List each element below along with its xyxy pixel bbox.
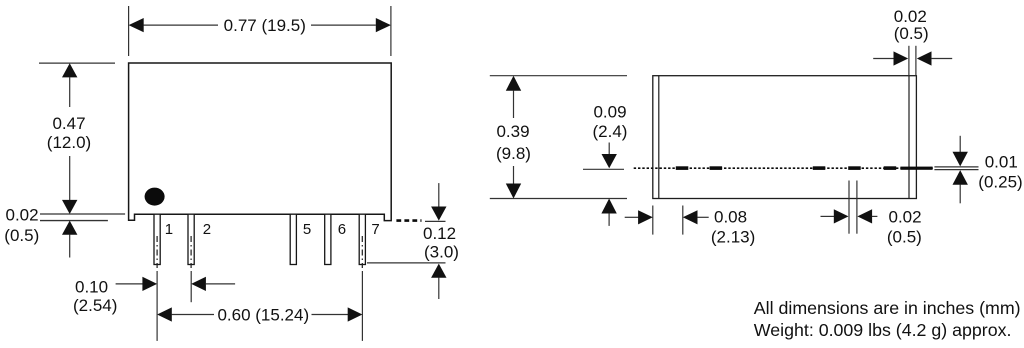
dim 0.02 bottom extension lines (pin width) [848, 181, 850, 234]
dim 0.02 upper line [40, 213, 125, 215]
dim 0.08 extension line at left wall [652, 206, 654, 235]
dim 0.01 down arrow [959, 136, 961, 152]
dim 0.39 up arrow [506, 76, 521, 91]
dim 0.12 down arrow [438, 183, 440, 206]
seating plane dashed line [396, 219, 421, 222]
svg-text:(2.13): (2.13) [711, 228, 755, 247]
left wall inner line [658, 76, 660, 199]
dim 0.10 right-pointing arrow at pin 1 [116, 283, 143, 285]
dim 0.77 left arrow [129, 18, 144, 32]
svg-text:0.01: 0.01 [985, 153, 1018, 172]
svg-text:All dimensions are in inches (: All dimensions are in inches (mm) [754, 298, 1021, 318]
dim 0.09 down arrow [608, 143, 610, 155]
pin a end-on [676, 166, 689, 170]
svg-text:0.12: 0.12 [423, 224, 456, 243]
dim 0.08 left-pointing arrow [683, 210, 698, 224]
svg-text:Weight: 0.009 lbs (4.2 g) appr: Weight: 0.009 lbs (4.2 g) approx. [754, 320, 1012, 340]
svg-text:0.02: 0.02 [889, 208, 922, 227]
dim 0.08 right-pointing arrow [625, 216, 639, 218]
dim 0.47 down arrow (shared with 0.02) [69, 156, 71, 200]
svg-text:7: 7 [371, 221, 379, 238]
svg-text:0.02: 0.02 [6, 206, 39, 225]
dim 0.01 up arrow [953, 170, 968, 185]
pin 7 centerline [361, 236, 363, 268]
dim 0.02 bottom right-pointing arrow [821, 215, 835, 217]
package body side view outline [653, 76, 917, 199]
pin d end-on [848, 166, 861, 170]
svg-text:0.47: 0.47 [52, 114, 85, 133]
right wall inner line [908, 76, 910, 199]
pin 1 [154, 214, 160, 264]
svg-text:0.08: 0.08 [714, 208, 747, 227]
svg-text:(3.0): (3.0) [424, 243, 459, 262]
svg-text:0.10: 0.10 [75, 278, 108, 297]
dim 0.60 left arrow [157, 307, 172, 321]
svg-text:0.77 (19.5): 0.77 (19.5) [224, 16, 306, 35]
svg-text:(9.8): (9.8) [496, 144, 531, 163]
svg-text:(2.54): (2.54) [73, 296, 117, 315]
dim 0.77 left extension line [128, 6, 130, 56]
dim 0.01 gap lines [934, 166, 978, 168]
dim 0.47 top tick [39, 62, 115, 64]
svg-text:(12.0): (12.0) [47, 133, 91, 152]
svg-text:(0.5): (0.5) [887, 228, 922, 247]
dim 0.39 down arrow [513, 166, 515, 184]
pin 7 [359, 214, 365, 264]
dim 0.77 right arrow [376, 18, 391, 32]
pin 2 [188, 214, 194, 264]
dim 0.09 up arrow below package [601, 199, 616, 214]
dim 0.02 lower line [40, 220, 108, 222]
dim 0.02 top right-pointing arrow [873, 58, 894, 60]
svg-text:(0.5): (0.5) [894, 24, 929, 43]
dim 0.77 right extension line [390, 6, 392, 56]
svg-text:1: 1 [165, 221, 173, 238]
dim 0.10 left-pointing arrow at pin 2 [191, 277, 206, 291]
pin 6 [325, 214, 331, 264]
pin b end-on [710, 166, 723, 170]
svg-text:0.39: 0.39 [496, 122, 529, 141]
pin 2 extension line [190, 271, 192, 302]
side view top tick [490, 75, 627, 77]
dim 0.12 tick [425, 220, 446, 222]
dim 0.47 up arrow [62, 63, 77, 77]
svg-text:(2.4): (2.4) [593, 122, 628, 141]
dim 0.02 top extension lines (wall thickness) [908, 46, 910, 76]
side view bottom tick [490, 198, 627, 200]
pin f end-on protruding [900, 167, 932, 170]
svg-text:6: 6 [338, 221, 346, 238]
dim 0.08 extension line at first pin [682, 206, 684, 235]
svg-text:(0.5): (0.5) [4, 226, 39, 245]
package body front view outline [129, 63, 392, 221]
pin 1 extension line [156, 271, 158, 341]
dim 0.02 bottom left-pointing arrow [857, 209, 872, 223]
dim 0.12 extension line at pin bottoms [367, 262, 446, 264]
pin 2 centerline [190, 236, 192, 268]
dim 0.02 top left-pointing arrow [917, 51, 932, 65]
svg-text:5: 5 [303, 221, 311, 238]
pin 1 polarity dot [145, 188, 165, 206]
pin row centerline [634, 167, 933, 169]
pin 1 centerline [156, 236, 158, 268]
dim 0.60 right arrow [312, 314, 349, 316]
svg-text:0.02: 0.02 [894, 7, 927, 26]
dim 0.02 up arrow [62, 221, 77, 235]
pin 5 [290, 214, 296, 264]
pin e end-on [884, 166, 897, 170]
pin c end-on [813, 166, 826, 170]
svg-text:2: 2 [203, 221, 211, 238]
dim 0.12 up arrow [431, 264, 446, 278]
dim 0.09 tick [583, 168, 624, 170]
svg-text:(0.25): (0.25) [978, 172, 1022, 191]
svg-text:0.09: 0.09 [593, 103, 626, 122]
svg-text:0.60 (15.24): 0.60 (15.24) [217, 306, 309, 325]
pin 7 extension line [361, 271, 363, 341]
